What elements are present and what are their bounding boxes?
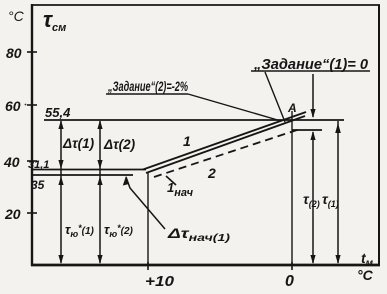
svg-text:1: 1 [183, 133, 191, 149]
top border [31, 4, 380, 6]
arrowhead down at 55.4 line (x313) [310, 109, 315, 118]
svg-text:60: 60 [5, 98, 21, 114]
dimension line dtau1 / tau_u1 [60, 121, 62, 263]
dashed line 2 [154, 129, 300, 177]
tick 60 [27, 104, 37, 106]
arrowhead down at level line (x61) [58, 160, 63, 169]
dimension line tau(1) [337, 121, 339, 263]
svg-text:°C: °C [357, 267, 374, 283]
svg-text:40: 40 [3, 154, 20, 170]
heating line 1 upper stroke [143, 112, 306, 170]
svg-text:Δτ(2): Δτ(2) [103, 137, 136, 152]
arrowhead up at 55.4 line (x61) [58, 120, 63, 129]
svg-text:A: A [287, 101, 297, 115]
vertical line at +10 [147, 172, 149, 264]
arrowhead up at 55.4 line (x338) [335, 123, 341, 133]
svg-text:2: 2 [207, 165, 216, 181]
arrowhead down at axis (x61) [58, 255, 63, 264]
arrowhead down at axis (x313) [310, 255, 315, 264]
tick mark for 1nach [166, 176, 176, 185]
svg-text:55,4: 55,4 [45, 105, 71, 120]
svg-text:Δτ(1): Δτ(1) [62, 136, 95, 151]
arrowhead down at axis (x100) [97, 255, 102, 264]
arrowhead up at 54.3 line (x313) [310, 131, 315, 140]
arrowhead down at axis (x338) [335, 255, 340, 264]
tick +10 on x-axis [147, 262, 149, 270]
dimension line dtau2 / tau_u2 [99, 121, 101, 263]
tick 40 [27, 160, 37, 162]
svg-text:„Задание“(2)=-2%: „Задание“(2)=-2% [107, 78, 188, 94]
dimension line tau(2) [312, 132, 314, 263]
svg-text:35: 35 [31, 178, 45, 192]
leader zadanie(2) [188, 94, 281, 121]
heating line 1 lower stroke (1nach) [146, 116, 305, 173]
svg-text:80: 80 [6, 45, 22, 61]
tick 80 [27, 51, 37, 53]
arrowhead up at 55.4 line (x100) [97, 120, 102, 129]
arrowhead down at level line (x100) [97, 160, 102, 169]
arrowhead of delta tau nach leader [123, 176, 129, 186]
underline zadanie(1) [251, 70, 370, 72]
svg-text:20: 20 [4, 206, 21, 222]
leader zadanie(1) [265, 72, 285, 122]
level line 55.4 [44, 119, 344, 121]
x-axis [31, 264, 380, 267]
y-axis [31, 4, 33, 266]
level line 31.1 lower [33, 174, 133, 176]
speck after 60 label [25, 104, 27, 106]
tick 20 [27, 212, 37, 214]
svg-text:+10: +10 [145, 274, 174, 290]
right border [378, 5, 380, 265]
vertical line at 0 [291, 111, 293, 264]
level line 35 upper [33, 169, 146, 171]
upper stub of tau(2) dimension [312, 74, 314, 117]
svg-text:0: 0 [285, 273, 294, 290]
underline zadanie(2) [106, 93, 188, 95]
svg-text:°C: °C [8, 8, 25, 24]
level line 54.3 [292, 129, 322, 131]
leader line delta tau nach [126, 177, 165, 229]
arrowhead up below level line (x61) [58, 176, 63, 185]
tick 0 on x-axis [291, 262, 293, 270]
arrowhead up below level line (x100) [97, 176, 102, 185]
